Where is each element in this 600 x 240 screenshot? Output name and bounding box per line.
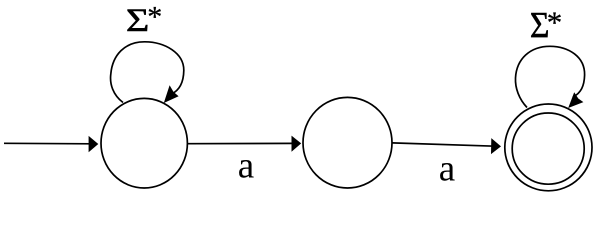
svg-text:Σ: Σ — [126, 1, 149, 38]
accepting state q2 inner circle — [512, 113, 584, 184]
transition arrowhead into q2 — [491, 138, 501, 154]
wire: transition q1 to q2 — [392, 143, 495, 146]
transition arrowhead into q1 — [292, 136, 302, 152]
self-loop q0 arrowhead — [164, 85, 179, 103]
self-loop on q2 — [515, 46, 584, 107]
svg-text:a: a — [439, 148, 455, 189]
svg-text:a: a — [238, 145, 254, 186]
self-loop on q0 — [111, 42, 184, 103]
self-loop q2 arrowhead — [568, 92, 583, 108]
wire: transition q0 to q1 — [188, 142, 296, 144]
start arrowhead — [89, 136, 99, 152]
accepting state q2 outer circle — [505, 104, 592, 191]
svg-text:*: * — [147, 1, 162, 34]
state q1 — [303, 97, 392, 188]
state q0 — [101, 98, 187, 188]
svg-text:*: * — [547, 5, 563, 40]
wire: start arrow line — [4, 142, 92, 145]
